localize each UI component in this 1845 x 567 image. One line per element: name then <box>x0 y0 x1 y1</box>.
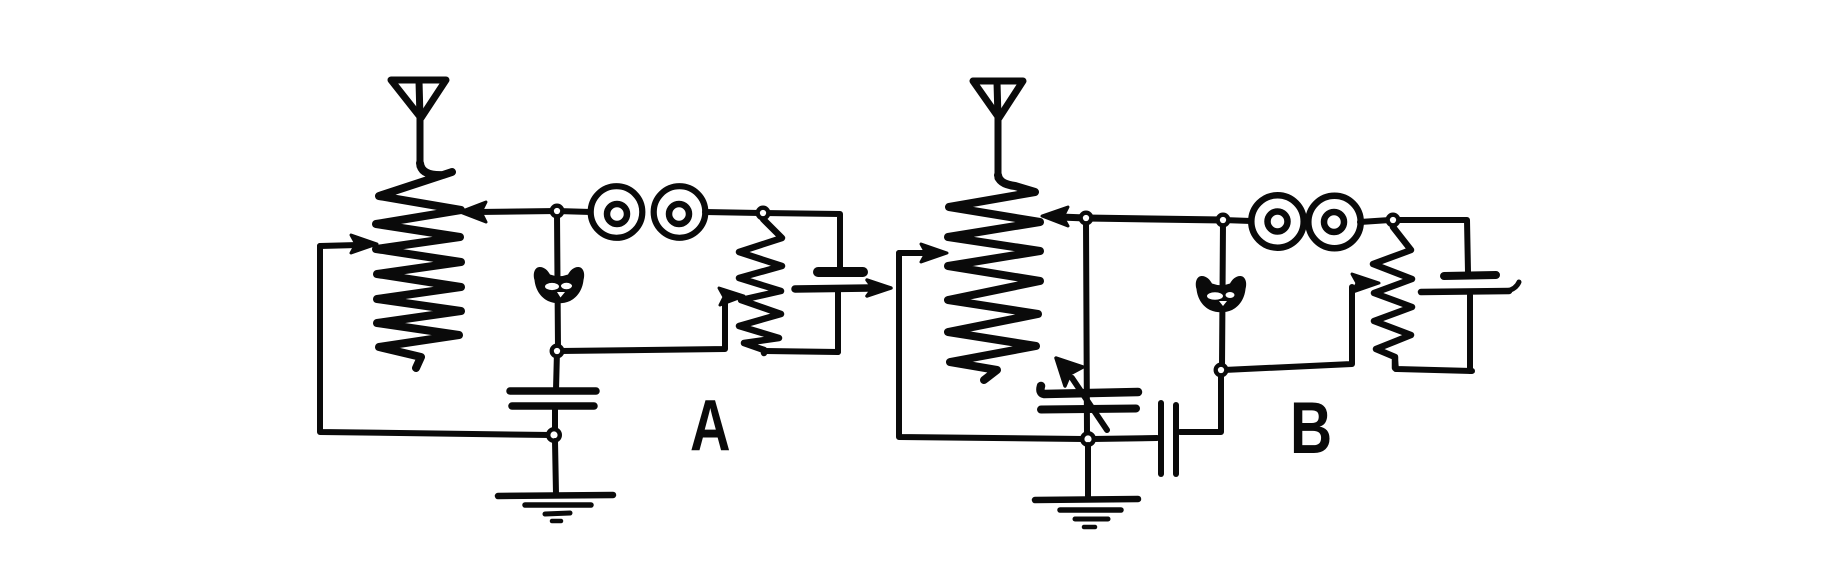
node: B ground junction <box>1082 433 1094 445</box>
wire: coil B upper tap to top rail <box>1060 217 1223 220</box>
capacitor C2 (fixed condenser above ground, circuit A) <box>510 351 596 432</box>
wire: detector B branch vertical <box>1222 223 1223 367</box>
node: A detector bottom junction <box>552 346 563 357</box>
wire: top right corner of circuit A <box>763 213 840 268</box>
coil L1 (circuit A tuning inductance) <box>376 163 461 368</box>
series capacitor C5 (circuit B, to ground path) <box>1092 373 1221 474</box>
ground (circuit B) <box>1035 445 1138 527</box>
wire: bottom run from detector B to tap riser <box>1224 287 1352 370</box>
wire: bottom of R1 to battery branch <box>765 351 838 352</box>
coil L2 (circuit B tuning inductance) <box>948 175 1040 380</box>
wire: coil A upper tap to detector node <box>478 211 557 212</box>
wire: C1 branch verticals <box>835 291 841 352</box>
wire: variable capacitor branch vertical <box>1086 221 1087 434</box>
wire: circuit A left vertical and bottom run <box>320 246 551 435</box>
phones P2 (right receiver, circuit A) <box>654 186 760 238</box>
label A <box>690 385 731 465</box>
wire: detector branch vertical (node to node) <box>557 214 558 348</box>
wire: tap riser into potentiometer R1 <box>560 298 731 351</box>
capacitor C4 bottom plate with tick <box>1421 282 1519 292</box>
variable capacitor C3 (circuit B) <box>1040 358 1138 430</box>
node: A ground junction <box>548 429 560 441</box>
antenna B <box>973 81 1023 178</box>
detector D2 (crystal detector, circuit B) <box>1196 276 1246 312</box>
arrow: lower tap into coil B (points right) <box>921 244 947 262</box>
arrow: tap into R1 (points right) <box>719 288 744 305</box>
potentiometer R1 (circuit A) <box>739 219 782 353</box>
potentiometer R2 (circuit B) <box>1373 227 1412 368</box>
wire: coil B lower tap horizontal <box>899 250 926 256</box>
wire: bottom of R2 to capacitor branch <box>1395 360 1472 371</box>
node: B coil tap junction <box>1081 213 1092 224</box>
node: A top tap junction <box>552 206 563 217</box>
phones P4 (right receiver, circuit B) <box>1308 196 1390 248</box>
detector D1 (crystal detector, circuit A) <box>534 267 584 303</box>
label B <box>1290 388 1332 470</box>
node: B detector top junction <box>1218 215 1229 226</box>
wire: top right corner of circuit B <box>1393 220 1468 272</box>
node: B detector bottom junction <box>1216 365 1227 376</box>
wire: circuit B left vertical and bottom run <box>899 253 1083 439</box>
arrow: tap into R2 (points right) <box>1352 274 1379 292</box>
phones P1 (left receiver, circuit A) <box>557 186 642 238</box>
svg-text:B: B <box>1290 388 1332 470</box>
arrow: tap into coil A (points left) <box>460 202 486 222</box>
svg-text:A: A <box>690 385 731 465</box>
ground (circuit A) <box>498 441 613 521</box>
wire: coil A lower tap horizontal <box>320 245 358 246</box>
capacitor C1 top plate (circuit A battery/condenser) <box>818 267 863 277</box>
arrow: tap into coil B (points left) <box>1042 207 1068 226</box>
arrow: lower tap into coil A (points right) <box>351 235 377 253</box>
node: A top right junction <box>758 208 769 219</box>
capacitor C4 top plate (circuit B phone condenser) <box>1444 275 1496 276</box>
wire: C4 branch lower vertical <box>1467 295 1473 371</box>
capacitor C1 bottom plate with arrow toward circuit B <box>795 280 891 296</box>
antenna A <box>391 80 446 166</box>
node: B phones right junction <box>1388 215 1399 226</box>
phones P3 (left receiver, circuit B) <box>1223 195 1304 247</box>
